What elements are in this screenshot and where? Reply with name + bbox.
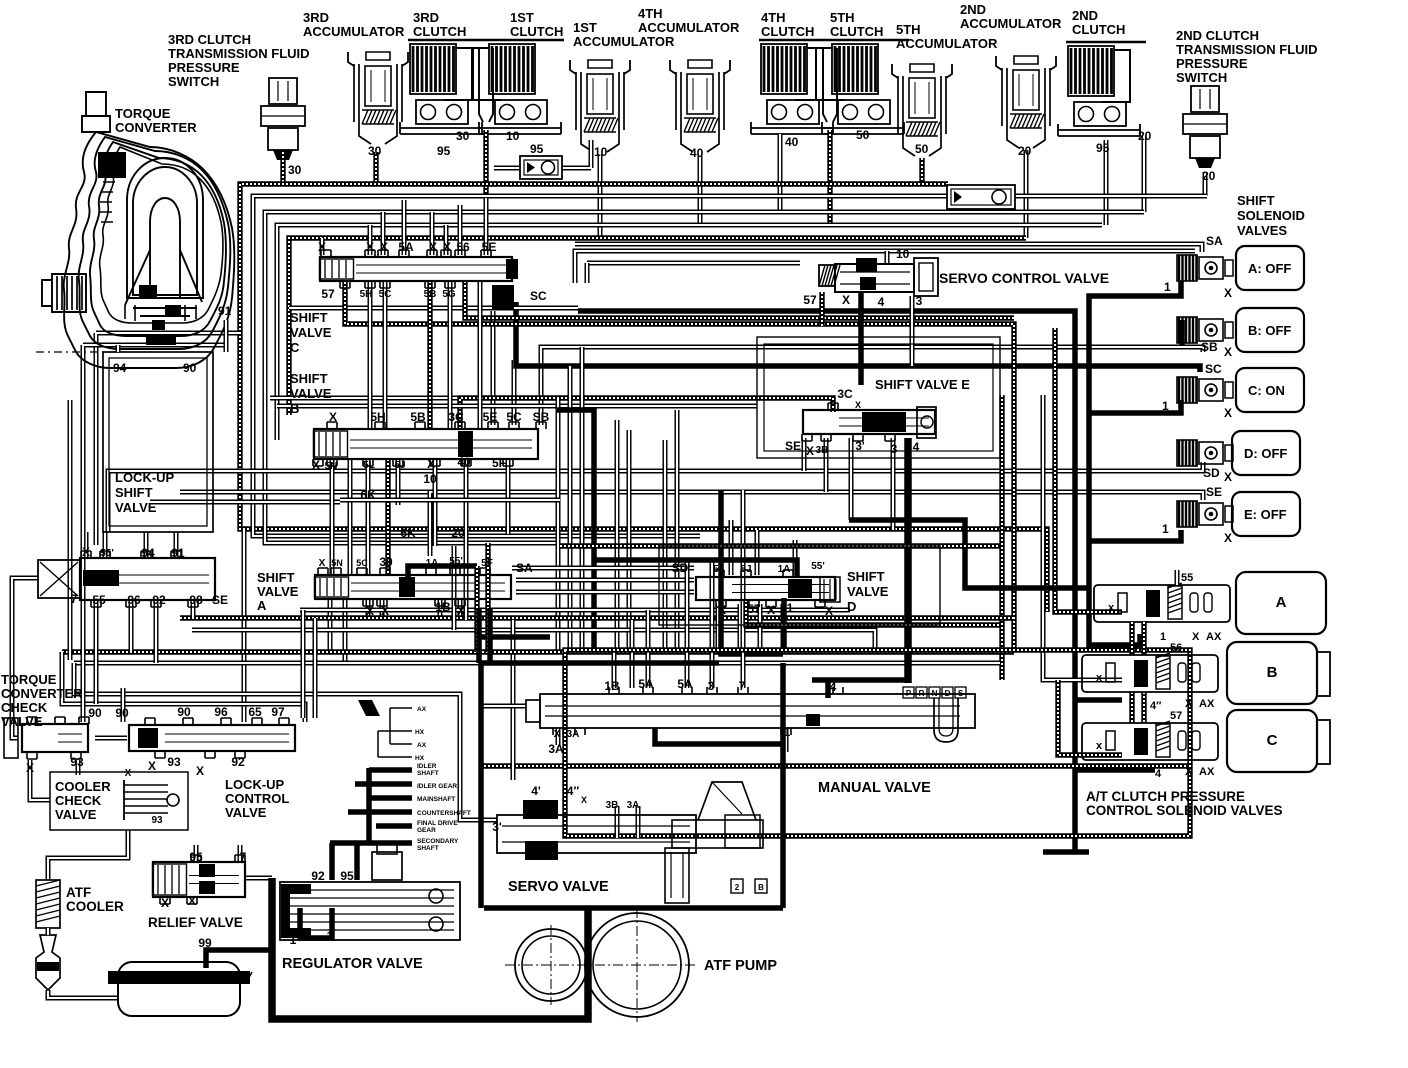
svg-text:2ND: 2ND (1072, 8, 1098, 23)
svg-text:90: 90 (115, 706, 129, 720)
svg-text:AX: AX (1199, 766, 1215, 778)
svg-text:C: ON: C: ON (1248, 383, 1285, 398)
svg-text:20: 20 (1138, 129, 1152, 143)
svg-text:4: 4 (913, 440, 920, 454)
svg-text:FINAL DRIVE: FINAL DRIVE (417, 820, 458, 827)
svg-text:SHAFT: SHAFT (417, 770, 439, 777)
svg-text:20: 20 (451, 526, 465, 540)
svg-text:SD: SD (1203, 466, 1220, 480)
svg-text:5A: 5A (677, 677, 693, 691)
svg-text:X: X (366, 240, 374, 254)
svg-text:4: 4 (1155, 768, 1162, 780)
svg-text:X: X (312, 458, 320, 472)
svg-text:ACCUMULATOR: ACCUMULATOR (960, 16, 1062, 31)
svg-text:LOCK-UP: LOCK-UP (115, 470, 175, 485)
svg-text:HX: HX (415, 729, 425, 736)
svg-text:CLUTCH: CLUTCH (830, 24, 883, 39)
svg-text:CLUTCH: CLUTCH (1072, 22, 1125, 37)
svg-text:X: X (318, 240, 326, 254)
svg-text:SOLENOID: SOLENOID (1237, 208, 1305, 223)
svg-text:X: X (1224, 345, 1232, 359)
svg-text:5E: 5E (483, 410, 498, 424)
svg-text:1: 1 (1162, 522, 1169, 536)
svg-text:B: B (1267, 664, 1278, 681)
svg-text:A: A (1276, 594, 1287, 611)
svg-text:SA: SA (1206, 234, 1223, 248)
svg-text:5J: 5J (740, 564, 751, 575)
svg-text:1A: 1A (426, 558, 439, 569)
svg-text:6K: 6K (360, 488, 376, 502)
svg-text:1ST: 1ST (573, 20, 597, 35)
svg-text:5L: 5L (713, 564, 725, 575)
svg-text:96: 96 (127, 593, 141, 607)
svg-text:SECONDARY: SECONDARY (417, 838, 459, 845)
svg-text:B: B (290, 401, 299, 416)
svg-text:90: 90 (88, 706, 102, 720)
svg-text:x: x (1096, 740, 1103, 752)
svg-text:3C: 3C (837, 387, 853, 401)
svg-text:1: 1 (1160, 631, 1166, 643)
svg-text:5E: 5E (482, 240, 497, 254)
svg-text:ATF: ATF (66, 885, 91, 900)
svg-text:SE: SE (212, 593, 228, 607)
svg-text:4': 4' (531, 784, 541, 798)
svg-text:AX: AX (417, 742, 427, 749)
svg-text:10: 10 (896, 247, 910, 261)
svg-text:D: D (847, 599, 856, 614)
svg-text:X: X (842, 293, 850, 307)
svg-text:3B: 3B (816, 445, 829, 456)
svg-text:CONVERTER: CONVERTER (115, 120, 197, 135)
svg-text:X: X (82, 545, 90, 559)
svg-text:COOLER: COOLER (55, 779, 111, 794)
svg-text:5G: 5G (442, 289, 456, 300)
svg-text:1A: 1A (778, 564, 791, 575)
svg-text:X: X (366, 604, 374, 618)
svg-text:D: D (945, 689, 951, 698)
svg-text:CLUTCH: CLUTCH (761, 24, 814, 39)
svg-text:SC: SC (530, 289, 547, 303)
svg-text:SD: SD (672, 561, 689, 575)
svg-text:B: OFF: B: OFF (1248, 323, 1291, 338)
svg-text:4: 4 (830, 680, 837, 694)
svg-text:A: A (257, 598, 267, 613)
svg-text:MANUAL VALVE: MANUAL VALVE (818, 780, 931, 796)
svg-text:5A: 5A (638, 677, 654, 691)
svg-text:SE: SE (1206, 485, 1222, 499)
svg-text:X: X (429, 240, 437, 254)
svg-text:5C: 5C (506, 410, 522, 424)
svg-text:X: X (855, 400, 861, 410)
svg-text:SHIFT: SHIFT (290, 310, 328, 325)
svg-text:6K: 6K (400, 526, 416, 540)
svg-text:X: X (718, 603, 726, 617)
svg-text:ACCUMULATOR: ACCUMULATOR (638, 20, 740, 35)
svg-text:57: 57 (803, 293, 817, 307)
svg-text:4″: 4″ (567, 784, 580, 798)
svg-text:5A: 5A (398, 240, 414, 254)
svg-text:HX: HX (415, 755, 425, 762)
svg-text:7: 7 (240, 850, 247, 864)
svg-text:X: X (161, 896, 169, 910)
svg-text:3: 3 (708, 679, 715, 693)
svg-text:94: 94 (113, 361, 127, 375)
svg-text:A: OFF: A: OFF (1248, 261, 1291, 276)
svg-text:2ND: 2ND (960, 2, 986, 17)
svg-text:4″: 4″ (1150, 700, 1162, 712)
svg-text:B: B (758, 883, 764, 892)
svg-text:X: X (381, 604, 389, 618)
svg-text:D: OFF: D: OFF (1244, 446, 1287, 461)
svg-text:55: 55 (1181, 572, 1193, 584)
svg-text:98: 98 (189, 593, 203, 607)
svg-text:C: C (290, 340, 300, 355)
svg-text:97: 97 (271, 705, 285, 719)
svg-text:X: X (806, 444, 814, 458)
svg-text:7: 7 (739, 679, 746, 693)
svg-text:95: 95 (530, 142, 544, 156)
svg-text:3RD: 3RD (413, 10, 439, 25)
svg-text:1ST: 1ST (510, 10, 534, 25)
svg-text:30: 30 (379, 555, 393, 569)
svg-text:1: 1 (1164, 280, 1171, 294)
svg-text:AX: AX (1199, 698, 1215, 710)
svg-text:X: X (319, 558, 326, 569)
svg-text:X: X (196, 764, 204, 778)
svg-text:VALVE: VALVE (257, 584, 299, 599)
svg-text:3: 3 (916, 294, 923, 308)
svg-text:TORQUE: TORQUE (115, 106, 171, 121)
svg-text:SHIFT: SHIFT (1237, 193, 1275, 208)
svg-text:X: X (767, 603, 775, 617)
svg-text:2: 2 (735, 883, 740, 892)
svg-text:2ND CLUTCH: 2ND CLUTCH (1176, 28, 1259, 43)
svg-text:57: 57 (747, 602, 761, 616)
svg-text:SHIFT: SHIFT (290, 371, 328, 386)
svg-text:SHIFT: SHIFT (257, 570, 295, 585)
svg-text:ACCUMULATOR: ACCUMULATOR (896, 36, 998, 51)
svg-text:ACCUMULATOR: ACCUMULATOR (573, 34, 675, 49)
svg-text:LOCK-UP: LOCK-UP (225, 777, 285, 792)
svg-text:40: 40 (690, 146, 704, 160)
svg-text:VALVE: VALVE (290, 386, 332, 401)
svg-text:E: OFF: E: OFF (1244, 507, 1287, 522)
svg-text:1B: 1B (604, 679, 620, 693)
svg-text:40: 40 (457, 455, 471, 469)
svg-text:SB: SB (533, 410, 550, 424)
svg-text:SERVO CONTROL VALVE: SERVO CONTROL VALVE (939, 270, 1109, 286)
svg-text:5N: 5N (331, 558, 343, 568)
svg-text:X: X (329, 410, 337, 424)
svg-text:3': 3' (492, 820, 502, 834)
svg-text:P: P (906, 689, 912, 698)
svg-text:3A: 3A (548, 742, 564, 756)
svg-text:95: 95 (340, 869, 354, 883)
svg-text:5N: 5N (325, 461, 338, 472)
svg-text:VALVE: VALVE (1, 714, 43, 729)
svg-text:CONVERTER: CONVERTER (1, 686, 83, 701)
svg-text:SWITCH: SWITCH (168, 74, 219, 89)
svg-text:4: 4 (500, 292, 507, 306)
svg-text:93: 93 (70, 755, 84, 769)
svg-text:COUNTERSHAFT: COUNTERSHAFT (417, 810, 471, 817)
svg-text:1: 1 (1162, 399, 1169, 413)
svg-text:5F: 5F (481, 558, 493, 569)
svg-text:95: 95 (1096, 141, 1110, 155)
svg-text:50: 50 (915, 142, 929, 156)
svg-text:5B: 5B (424, 289, 437, 300)
svg-text:96: 96 (214, 705, 228, 719)
svg-text:RELIEF VALVE: RELIEF VALVE (148, 915, 243, 930)
svg-text:55': 55' (100, 548, 114, 559)
svg-text:95: 95 (437, 144, 451, 158)
svg-text:X: X (1224, 406, 1232, 420)
svg-text:3A: 3A (627, 800, 640, 811)
svg-text:X: X (1224, 531, 1232, 545)
svg-text:X: X (443, 240, 451, 254)
svg-text:PRESSURE: PRESSURE (1176, 56, 1248, 71)
svg-text:7: 7 (71, 592, 78, 606)
svg-text:VALVE: VALVE (290, 325, 332, 340)
svg-text:56: 56 (456, 240, 470, 254)
svg-text:S: S (958, 689, 964, 698)
svg-text:REGULATOR VALVE: REGULATOR VALVE (282, 956, 423, 972)
svg-text:IDLER: IDLER (417, 763, 437, 770)
svg-text:99: 99 (198, 936, 212, 950)
svg-text:X: X (1185, 766, 1193, 778)
svg-text:X: X (1185, 698, 1193, 710)
svg-text:ATF PUMP: ATF PUMP (704, 958, 777, 974)
svg-text:5C: 5C (379, 289, 392, 300)
svg-text:3B: 3B (606, 800, 619, 811)
svg-text:90: 90 (177, 705, 191, 719)
svg-text:X: X (148, 759, 156, 773)
svg-text:20: 20 (1018, 144, 1032, 158)
svg-text:94: 94 (141, 546, 155, 560)
svg-text:57: 57 (1170, 710, 1182, 722)
svg-text:CLUTCH: CLUTCH (413, 24, 466, 39)
svg-text:x: x (1108, 602, 1115, 614)
svg-text:5TH: 5TH (896, 22, 921, 37)
svg-text:SE: SE (785, 439, 801, 453)
svg-text:ACCUMULATOR: ACCUMULATOR (303, 24, 405, 39)
svg-text:4: 4 (878, 295, 885, 309)
svg-text:3: 3 (891, 442, 898, 456)
svg-text:3A: 3A (567, 729, 580, 740)
svg-text:4TH: 4TH (638, 6, 663, 21)
svg-text:30: 30 (288, 163, 302, 177)
svg-text:COOLER: COOLER (66, 899, 124, 914)
svg-text:SHAFT: SHAFT (417, 845, 439, 852)
svg-text:SHIFT: SHIFT (847, 569, 885, 584)
svg-text:TORQUE: TORQUE (1, 672, 57, 687)
svg-text:30: 30 (456, 129, 470, 143)
svg-text:VALVE: VALVE (115, 500, 157, 515)
svg-text:AX: AX (417, 706, 427, 713)
svg-text:CHECK: CHECK (1, 700, 48, 715)
svg-text:1B: 1B (435, 600, 451, 614)
svg-text:R: R (919, 689, 925, 698)
svg-text:C: C (1267, 732, 1278, 749)
svg-text:X: X (380, 240, 388, 254)
svg-text:PRESSURE: PRESSURE (168, 60, 240, 75)
svg-text:1: 1 (327, 929, 334, 943)
svg-text:10: 10 (423, 472, 437, 486)
svg-text:3RD: 3RD (303, 10, 329, 25)
svg-text:X: X (1224, 286, 1232, 300)
svg-text:5J: 5J (394, 460, 405, 471)
svg-text:3': 3' (855, 439, 865, 453)
svg-text:X: X (188, 894, 196, 908)
svg-text:57: 57 (321, 287, 335, 301)
svg-text:50: 50 (856, 128, 870, 142)
svg-text:CONTROL SOLENOID VALVES: CONTROL SOLENOID VALVES (1086, 803, 1283, 818)
svg-text:20: 20 (1202, 169, 1216, 183)
svg-text:X: X (26, 761, 34, 775)
svg-text:92: 92 (152, 593, 166, 607)
svg-text:3C: 3C (448, 410, 464, 424)
svg-text:X: X (581, 795, 587, 805)
svg-text:GEAR: GEAR (417, 827, 436, 834)
svg-text:93: 93 (167, 755, 181, 769)
svg-text:65: 65 (248, 705, 262, 719)
svg-text:5H: 5H (370, 410, 385, 424)
svg-text:55': 55' (449, 556, 463, 567)
svg-text:5C: 5C (356, 558, 368, 568)
svg-text:VALVE: VALVE (225, 805, 267, 820)
svg-text:91: 91 (171, 546, 185, 560)
svg-text:x: x (1096, 672, 1103, 684)
svg-text:SC: SC (1205, 362, 1222, 376)
svg-text:10: 10 (506, 129, 520, 143)
svg-text:40: 40 (785, 135, 799, 149)
svg-text:5H: 5H (360, 289, 373, 300)
svg-text:X: X (1224, 470, 1232, 484)
svg-text:SERVO VALVE: SERVO VALVE (508, 879, 609, 895)
svg-text:X: X (825, 604, 833, 618)
svg-text:10: 10 (594, 145, 608, 159)
svg-text:1: 1 (290, 933, 297, 947)
svg-text:VALVE: VALVE (55, 807, 97, 822)
svg-text:4TH: 4TH (761, 10, 786, 25)
svg-text:X: X (554, 729, 561, 740)
svg-text:3RD CLUTCH: 3RD CLUTCH (168, 32, 251, 47)
svg-text:TRANSMISSION FLUID: TRANSMISSION FLUID (1176, 42, 1318, 57)
svg-text:CONTROL: CONTROL (225, 791, 289, 806)
svg-text:A/T CLUTCH PRESSURE: A/T CLUTCH PRESSURE (1086, 789, 1245, 804)
svg-text:SB: SB (1201, 340, 1218, 354)
svg-text:5F: 5F (492, 456, 506, 470)
svg-text:N: N (932, 689, 938, 698)
svg-text:CHECK: CHECK (55, 793, 102, 808)
svg-text:SWITCH: SWITCH (1176, 70, 1227, 85)
svg-text:55: 55 (92, 593, 106, 607)
svg-text:VALVE: VALVE (847, 584, 889, 599)
svg-text:91: 91 (218, 304, 232, 318)
svg-text:92: 92 (311, 869, 325, 883)
svg-text:1: 1 (787, 601, 794, 615)
svg-text:CLUTCH: CLUTCH (510, 24, 563, 39)
svg-text:MAINSHAFT: MAINSHAFT (417, 796, 455, 803)
svg-text:X: X (1192, 631, 1200, 643)
svg-text:5B: 5B (410, 410, 426, 424)
svg-text:95: 95 (189, 850, 203, 864)
svg-text:1: 1 (784, 725, 791, 739)
svg-text:TRANSMISSION FLUID: TRANSMISSION FLUID (168, 46, 310, 61)
svg-text:55': 55' (811, 561, 825, 572)
svg-text:SHIFT VALVE E: SHIFT VALVE E (875, 377, 970, 392)
svg-text:VALVES: VALVES (1237, 223, 1287, 238)
svg-text:X: X (427, 457, 435, 471)
svg-text:30: 30 (368, 144, 382, 158)
svg-text:X: X (457, 604, 465, 618)
svg-text:IDLER GEAR: IDLER GEAR (417, 783, 457, 790)
svg-text:AX: AX (1206, 631, 1222, 643)
svg-text:5TH: 5TH (830, 10, 855, 25)
svg-text:90: 90 (183, 361, 197, 375)
svg-text:SHIFT: SHIFT (115, 485, 153, 500)
svg-text:56: 56 (1170, 642, 1182, 654)
svg-text:92: 92 (231, 755, 245, 769)
svg-text:93: 93 (151, 815, 163, 826)
svg-text:5L: 5L (363, 460, 375, 471)
svg-text:SA: SA (516, 561, 533, 575)
svg-text:X: X (125, 768, 132, 779)
